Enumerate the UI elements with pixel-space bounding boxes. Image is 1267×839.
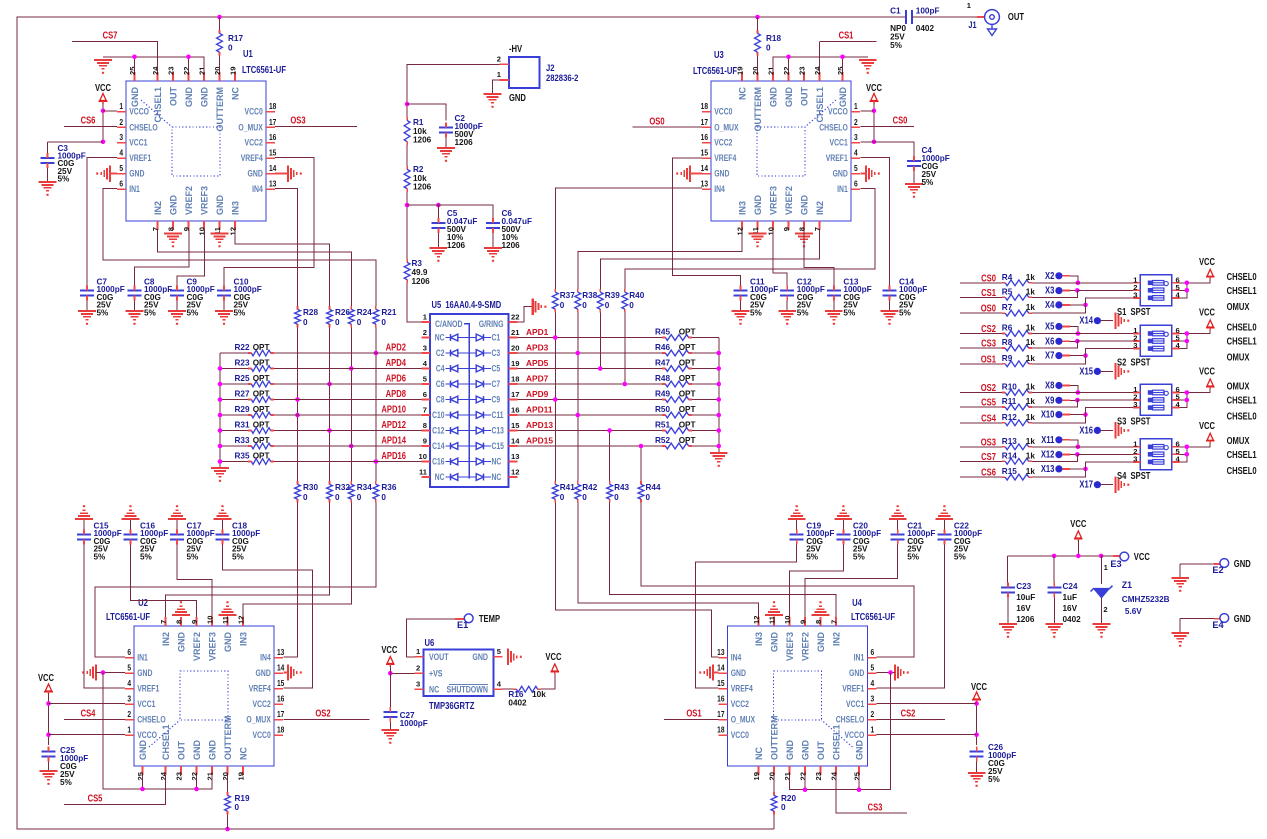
- svg-text:X10: X10: [1041, 409, 1055, 420]
- svg-text:R39: R39: [605, 291, 620, 300]
- svg-text:OS2: OS2: [315, 708, 330, 719]
- svg-text:1206: 1206: [447, 241, 466, 250]
- svg-text:C/ANOD: C/ANOD: [435, 319, 463, 329]
- svg-text:0402: 0402: [1063, 615, 1082, 624]
- svg-text:20: 20: [751, 67, 760, 75]
- svg-text:OMUX: OMUX: [1227, 352, 1250, 363]
- svg-text:0: 0: [235, 803, 240, 812]
- svg-text:10uF: 10uF: [1016, 593, 1035, 602]
- svg-text:GND: GND: [769, 87, 779, 108]
- svg-text:OPT: OPT: [253, 405, 270, 414]
- svg-text:C10: C10: [432, 410, 445, 420]
- svg-text:1000pF: 1000pF: [400, 719, 428, 728]
- svg-text:R47: R47: [655, 359, 670, 368]
- svg-text:X4: X4: [1045, 299, 1054, 310]
- svg-text:R48: R48: [655, 374, 670, 383]
- svg-text:5%: 5%: [899, 308, 912, 317]
- svg-text:16: 16: [701, 133, 708, 143]
- svg-text:9: 9: [423, 437, 427, 446]
- svg-text:23: 23: [167, 67, 176, 75]
- svg-text:LTC6561-UF: LTC6561-UF: [693, 65, 737, 76]
- svg-text:OMUX: OMUX: [1227, 301, 1250, 312]
- svg-text:SHUTDOWN: SHUTDOWN: [447, 683, 488, 694]
- svg-text:VREF4: VREF4: [241, 153, 263, 163]
- svg-text:IN2: IN2: [832, 632, 842, 646]
- svg-text:9: 9: [799, 620, 808, 624]
- svg-text:CS4: CS4: [81, 708, 96, 719]
- svg-text:16V: 16V: [1016, 604, 1031, 613]
- svg-text:2: 2: [497, 55, 501, 64]
- svg-text:X11: X11: [1041, 434, 1054, 445]
- svg-text:IN3: IN3: [738, 201, 748, 215]
- svg-text:S3 SPST: S3 SPST: [1117, 416, 1151, 427]
- svg-text:U6: U6: [425, 637, 435, 648]
- svg-text:11: 11: [419, 468, 428, 477]
- svg-text:OPT: OPT: [679, 405, 696, 414]
- svg-text:NC: NC: [231, 87, 241, 100]
- svg-text:CS5: CS5: [88, 793, 103, 804]
- svg-text:APD14: APD14: [381, 435, 406, 446]
- svg-text:TMP36GRTZ: TMP36GRTZ: [429, 700, 475, 711]
- svg-text:21: 21: [511, 328, 520, 337]
- svg-text:25: 25: [836, 66, 845, 75]
- svg-text:12: 12: [511, 468, 519, 477]
- svg-text:C6: C6: [436, 379, 445, 389]
- svg-text:VREF2: VREF2: [184, 186, 194, 215]
- svg-text:1k: 1k: [1026, 287, 1036, 296]
- svg-text:0: 0: [357, 493, 362, 502]
- svg-text:APD10: APD10: [381, 404, 406, 415]
- svg-text:0: 0: [560, 301, 565, 310]
- svg-text:15: 15: [269, 148, 276, 158]
- svg-text:R30: R30: [303, 483, 318, 492]
- svg-text:VREF1: VREF1: [137, 684, 159, 694]
- svg-text:6: 6: [871, 648, 875, 658]
- svg-text:VCC0: VCC0: [245, 107, 264, 117]
- svg-text:3: 3: [1133, 454, 1137, 463]
- svg-text:NC: NC: [492, 457, 502, 467]
- svg-text:X7: X7: [1045, 350, 1054, 361]
- svg-text:VCC: VCC: [1199, 366, 1216, 377]
- svg-text:CHSEL1: CHSEL1: [153, 87, 163, 123]
- svg-text:X8: X8: [1045, 380, 1054, 391]
- svg-text:IN1: IN1: [854, 653, 865, 663]
- svg-text:OPT: OPT: [679, 359, 696, 368]
- svg-text:O_MUX: O_MUX: [238, 122, 263, 132]
- svg-text:GND: GND: [177, 632, 187, 653]
- svg-text:CS7: CS7: [981, 451, 996, 462]
- svg-text:R25: R25: [235, 374, 250, 383]
- svg-text:APD16: APD16: [381, 450, 406, 461]
- svg-text:2: 2: [871, 710, 875, 720]
- svg-text:1206: 1206: [413, 183, 432, 192]
- svg-text:LTC6561-UF: LTC6561-UF: [851, 611, 895, 622]
- svg-text:1k: 1k: [1026, 338, 1036, 347]
- svg-text:R29: R29: [235, 405, 250, 414]
- svg-text:20: 20: [511, 344, 519, 353]
- svg-text:1k: 1k: [1026, 451, 1036, 460]
- svg-text:20: 20: [768, 772, 777, 780]
- svg-text:R10: R10: [1002, 383, 1017, 392]
- svg-text:8: 8: [423, 421, 427, 430]
- svg-text:S4 SPST: S4 SPST: [1117, 470, 1151, 481]
- svg-text:1206: 1206: [502, 241, 521, 250]
- svg-text:X15: X15: [1079, 365, 1093, 376]
- svg-text:NC: NC: [492, 472, 502, 482]
- svg-text:R4: R4: [1002, 273, 1013, 282]
- svg-text:R51: R51: [655, 421, 670, 430]
- svg-text:10: 10: [206, 616, 215, 624]
- svg-text:22: 22: [799, 772, 808, 780]
- svg-text:J1: J1: [968, 19, 977, 30]
- svg-text:R23: R23: [235, 359, 250, 368]
- svg-text:VCC1: VCC1: [846, 699, 865, 709]
- svg-text:5%: 5%: [140, 552, 153, 561]
- svg-text:OPT: OPT: [679, 390, 696, 399]
- svg-text:IN3: IN3: [239, 632, 249, 646]
- svg-text:16: 16: [269, 133, 276, 143]
- svg-text:O_MUX: O_MUX: [731, 715, 756, 725]
- svg-text:NC: NC: [754, 747, 764, 760]
- svg-text:IN1: IN1: [837, 184, 848, 194]
- svg-text:VCC1: VCC1: [830, 138, 849, 148]
- svg-text:IN2: IN2: [161, 632, 171, 646]
- svg-text:CS1: CS1: [981, 287, 996, 298]
- svg-text:R38: R38: [582, 291, 597, 300]
- svg-text:OPT: OPT: [253, 374, 270, 383]
- svg-text:5%: 5%: [853, 552, 866, 561]
- svg-text:5%: 5%: [94, 552, 107, 561]
- svg-text:LTC6561-UF: LTC6561-UF: [106, 611, 150, 622]
- svg-text:1206: 1206: [455, 138, 474, 147]
- svg-text:12: 12: [237, 616, 246, 624]
- svg-text:CS0: CS0: [893, 115, 908, 126]
- svg-text:C1: C1: [492, 333, 501, 343]
- svg-text:VREF2: VREF2: [192, 632, 202, 661]
- svg-text:5: 5: [127, 663, 131, 673]
- svg-text:5.6V: 5.6V: [1125, 607, 1142, 616]
- svg-text:VCCO: VCCO: [137, 730, 157, 740]
- svg-text:R18: R18: [766, 34, 781, 43]
- svg-text:1k: 1k: [1026, 383, 1036, 392]
- svg-text:22: 22: [511, 313, 519, 322]
- svg-text:GND: GND: [855, 740, 865, 761]
- svg-text:R21: R21: [381, 308, 396, 317]
- svg-text:21: 21: [206, 771, 215, 780]
- svg-text:CHSEL1: CHSEL1: [1227, 336, 1257, 347]
- svg-text:3: 3: [1133, 290, 1137, 299]
- svg-text:GND: GND: [849, 668, 864, 678]
- svg-text:3: 3: [854, 133, 858, 143]
- svg-text:C7: C7: [492, 379, 501, 389]
- svg-text:OUT: OUT: [169, 87, 179, 107]
- svg-text:APD12: APD12: [381, 419, 406, 430]
- svg-text:4: 4: [119, 148, 123, 158]
- svg-text:OPT: OPT: [253, 452, 270, 461]
- svg-text:X6: X6: [1045, 335, 1054, 346]
- svg-text:IN2: IN2: [815, 201, 825, 215]
- svg-text:R52: R52: [655, 436, 670, 445]
- svg-text:1k: 1k: [1026, 437, 1036, 446]
- svg-text:9: 9: [190, 620, 199, 624]
- svg-text:VCC2: VCC2: [245, 138, 264, 148]
- svg-text:15: 15: [701, 148, 708, 158]
- svg-text:VCC: VCC: [1199, 307, 1216, 318]
- svg-text:100pF: 100pF: [916, 7, 940, 16]
- svg-text:VCC: VCC: [1134, 551, 1151, 562]
- svg-text:OPT: OPT: [679, 436, 696, 445]
- svg-text:APD5: APD5: [526, 358, 549, 368]
- svg-text:CS6: CS6: [981, 467, 996, 478]
- svg-text:17: 17: [511, 390, 519, 399]
- svg-text:R5: R5: [1002, 287, 1013, 296]
- svg-text:CS5: CS5: [981, 397, 996, 408]
- svg-text:X9: X9: [1045, 394, 1054, 405]
- svg-text:APD4: APD4: [386, 357, 406, 368]
- svg-text:OMUX: OMUX: [1227, 435, 1250, 446]
- svg-text:CHSELO: CHSELO: [137, 715, 166, 725]
- svg-text:C16: C16: [432, 457, 445, 467]
- svg-text:OUTTERM: OUTTERM: [770, 716, 780, 761]
- svg-text:CHSEL0: CHSEL0: [1227, 411, 1257, 422]
- svg-text:14: 14: [277, 663, 284, 673]
- svg-text:CHSEL1: CHSEL1: [161, 724, 171, 760]
- svg-text:GND: GND: [200, 87, 210, 108]
- svg-text:R44: R44: [646, 483, 661, 492]
- svg-text:CHSEL1: CHSEL1: [1227, 285, 1257, 296]
- svg-text:GND: GND: [256, 668, 271, 678]
- svg-text:CHSEL1: CHSEL1: [1227, 395, 1257, 406]
- svg-text:16: 16: [277, 694, 284, 704]
- svg-text:R43: R43: [614, 483, 629, 492]
- svg-text:8: 8: [167, 227, 176, 231]
- svg-text:VREF4: VREF4: [249, 684, 271, 694]
- svg-text:GND: GND: [833, 169, 848, 179]
- svg-text:R40: R40: [629, 291, 644, 300]
- svg-text:VCC2: VCC2: [731, 699, 750, 709]
- svg-text:GND: GND: [472, 651, 488, 662]
- svg-text:10: 10: [783, 616, 792, 624]
- svg-text:R33: R33: [235, 436, 250, 445]
- svg-text:VOUT: VOUT: [429, 651, 449, 662]
- svg-text:VCC: VCC: [866, 82, 883, 93]
- svg-text:VCC: VCC: [1199, 256, 1216, 267]
- svg-text:VCC: VCC: [95, 82, 112, 93]
- svg-text:APD15: APD15: [526, 436, 553, 446]
- svg-text:VCCO: VCCO: [129, 107, 149, 117]
- svg-text:R37: R37: [560, 291, 575, 300]
- svg-text:0: 0: [303, 318, 308, 327]
- svg-text:E1: E1: [457, 620, 468, 630]
- svg-text:CHSEL1: CHSEL1: [832, 724, 842, 760]
- svg-text:CS7: CS7: [103, 30, 118, 41]
- svg-text:VCC2: VCC2: [253, 699, 272, 709]
- svg-text:8: 8: [814, 620, 823, 624]
- svg-text:R9: R9: [1002, 354, 1013, 363]
- svg-text:NC: NC: [435, 472, 445, 482]
- svg-text:X16: X16: [1079, 424, 1093, 435]
- svg-text:C9: C9: [492, 395, 501, 405]
- svg-text:CHSELO: CHSELO: [836, 715, 865, 725]
- svg-text:7: 7: [151, 227, 160, 231]
- svg-text:S1 SPST: S1 SPST: [1117, 306, 1151, 317]
- svg-text:R8: R8: [1002, 338, 1013, 347]
- svg-text:3: 3: [423, 344, 427, 353]
- svg-text:5%: 5%: [60, 778, 73, 787]
- svg-text:OUT: OUT: [1008, 11, 1025, 22]
- svg-text:8: 8: [798, 227, 807, 231]
- svg-text:GND: GND: [801, 740, 811, 761]
- svg-text:C2: C2: [436, 348, 445, 358]
- svg-text:IN3: IN3: [231, 201, 241, 215]
- svg-text:CHSELO: CHSELO: [129, 122, 158, 132]
- svg-text:R1: R1: [413, 118, 424, 127]
- svg-text:OPT: OPT: [679, 343, 696, 352]
- svg-text:25: 25: [128, 66, 137, 75]
- svg-text:IN1: IN1: [129, 184, 140, 194]
- svg-text:22: 22: [190, 772, 199, 780]
- svg-text:X3: X3: [1045, 285, 1054, 296]
- svg-text:0: 0: [629, 301, 634, 310]
- svg-text:9: 9: [782, 227, 791, 231]
- svg-text:NC: NC: [738, 87, 748, 100]
- svg-text:CS2: CS2: [901, 708, 916, 719]
- svg-text:VREF3: VREF3: [769, 186, 779, 215]
- svg-text:C4: C4: [436, 364, 445, 374]
- svg-text:R41: R41: [560, 483, 575, 492]
- svg-text:VCC1: VCC1: [129, 138, 148, 148]
- svg-text:-HV: -HV: [509, 43, 522, 54]
- svg-text:OPT: OPT: [679, 328, 696, 337]
- svg-text:12: 12: [736, 227, 745, 235]
- svg-text:6: 6: [423, 390, 427, 399]
- svg-text:6: 6: [119, 179, 123, 189]
- svg-text:VREF4: VREF4: [714, 153, 736, 163]
- svg-text:VCCO: VCCO: [828, 107, 848, 117]
- svg-text:1: 1: [854, 102, 858, 112]
- svg-text:24: 24: [159, 771, 168, 780]
- svg-text:0: 0: [766, 44, 771, 53]
- svg-text:GND: GND: [215, 195, 225, 216]
- svg-text:4: 4: [127, 679, 131, 689]
- svg-text:R2: R2: [413, 165, 424, 174]
- svg-text:16V: 16V: [1063, 604, 1078, 613]
- svg-text:GND: GND: [800, 195, 810, 216]
- svg-text:1206: 1206: [412, 277, 431, 286]
- svg-text:OUTTERM: OUTTERM: [215, 87, 225, 132]
- svg-text:25: 25: [136, 771, 145, 780]
- svg-text:17: 17: [717, 710, 724, 720]
- svg-text:GND: GND: [731, 668, 746, 678]
- svg-text:14: 14: [717, 663, 724, 673]
- svg-text:C3: C3: [492, 348, 501, 358]
- svg-text:13: 13: [701, 179, 708, 189]
- svg-text:X17: X17: [1079, 479, 1093, 490]
- svg-text:R19: R19: [235, 794, 250, 803]
- svg-text:VREF4: VREF4: [731, 684, 753, 694]
- svg-text:VREF2: VREF2: [801, 632, 811, 661]
- svg-text:11: 11: [768, 615, 777, 624]
- svg-text:5%: 5%: [806, 552, 819, 561]
- svg-text:Z1: Z1: [1122, 580, 1132, 590]
- svg-text:C11: C11: [492, 410, 504, 420]
- svg-text:3: 3: [119, 133, 123, 143]
- svg-text:5%: 5%: [232, 552, 245, 561]
- svg-text:O_MUX: O_MUX: [714, 122, 739, 132]
- svg-text:E2: E2: [1212, 565, 1223, 575]
- svg-text:12: 12: [229, 227, 238, 235]
- svg-text:1k: 1k: [1026, 467, 1036, 476]
- svg-text:APD1: APD1: [526, 327, 549, 337]
- svg-text:4: 4: [854, 148, 858, 158]
- svg-text:15: 15: [511, 421, 520, 430]
- svg-text:R20: R20: [781, 794, 796, 803]
- svg-text:OPT: OPT: [253, 359, 270, 368]
- svg-text:1: 1: [871, 725, 875, 735]
- svg-text:APD9: APD9: [526, 389, 549, 399]
- svg-text:CS3: CS3: [981, 338, 996, 349]
- svg-text:0: 0: [781, 803, 786, 812]
- svg-text:17: 17: [701, 117, 708, 127]
- svg-text:1k: 1k: [1026, 324, 1036, 333]
- svg-text:R42: R42: [582, 483, 597, 492]
- svg-text:VREF1: VREF1: [842, 684, 864, 694]
- svg-text:C1: C1: [890, 7, 901, 16]
- svg-text:OPT: OPT: [679, 374, 696, 383]
- svg-text:7: 7: [423, 406, 427, 415]
- svg-text:OMUX: OMUX: [1227, 381, 1250, 392]
- svg-text:CS3: CS3: [868, 801, 883, 812]
- svg-text:IN4: IN4: [731, 653, 742, 663]
- svg-text:19: 19: [229, 67, 238, 75]
- svg-text:IN2: IN2: [153, 201, 163, 215]
- svg-text:OS1: OS1: [686, 708, 701, 719]
- svg-text:18: 18: [717, 725, 724, 735]
- svg-text:GND: GND: [129, 169, 144, 179]
- svg-text:5%: 5%: [922, 178, 935, 187]
- svg-text:10: 10: [767, 227, 776, 235]
- svg-text:GND: GND: [1234, 558, 1251, 569]
- svg-text:2: 2: [854, 117, 858, 127]
- svg-text:6: 6: [127, 648, 131, 658]
- svg-text:GND: GND: [130, 87, 140, 108]
- svg-text:APD8: APD8: [386, 388, 406, 399]
- svg-text:3: 3: [871, 694, 875, 704]
- svg-text:OPT: OPT: [253, 390, 270, 399]
- svg-text:17: 17: [269, 117, 276, 127]
- svg-text:R11: R11: [1002, 397, 1017, 406]
- svg-text:CHSEL1: CHSEL1: [1227, 449, 1257, 460]
- svg-text:U4: U4: [852, 597, 862, 608]
- svg-text:APD2: APD2: [386, 342, 406, 353]
- svg-text:0: 0: [381, 318, 386, 327]
- svg-text:5%: 5%: [907, 552, 920, 561]
- svg-text:GND: GND: [753, 195, 763, 216]
- svg-text:GND: GND: [816, 632, 826, 653]
- svg-text:R50: R50: [655, 405, 670, 414]
- svg-text:R27: R27: [235, 390, 250, 399]
- svg-text:IN3: IN3: [754, 632, 764, 646]
- svg-text:2: 2: [416, 664, 420, 673]
- svg-text:24: 24: [151, 66, 160, 75]
- svg-text:R6: R6: [1002, 324, 1013, 333]
- svg-text:OUTTERM: OUTTERM: [223, 716, 233, 761]
- svg-text:6: 6: [854, 179, 858, 189]
- svg-text:22: 22: [782, 67, 791, 75]
- svg-text:VCC: VCC: [971, 681, 988, 692]
- svg-text:5: 5: [871, 663, 875, 673]
- svg-text:5%: 5%: [144, 308, 157, 317]
